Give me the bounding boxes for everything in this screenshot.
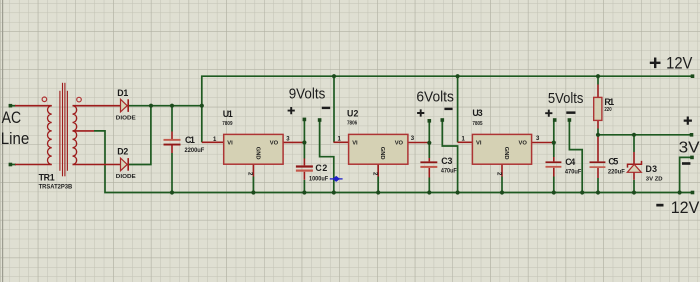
op-amp U1 regulator 7809 xyxy=(202,134,305,176)
diode D2 xyxy=(121,158,129,171)
wire 6V plus terminal down through U2 output node to C3 xyxy=(428,122,430,158)
wire C4 bottom lead xyxy=(553,177,555,193)
plus symbol 9V xyxy=(288,107,295,114)
plus symbol 6V xyxy=(417,109,424,116)
svg-text:U2: U2 xyxy=(347,108,358,118)
svg-text:AC: AC xyxy=(2,108,22,127)
wire 9V plus terminal down through U1 output node to C2 xyxy=(303,120,305,159)
wire 5V plus terminal down through U3 output node to C4 xyxy=(553,122,555,158)
svg-text:DIODE: DIODE xyxy=(116,116,136,122)
capacitor C3 xyxy=(420,158,437,178)
svg-text:U1: U1 xyxy=(223,109,233,119)
minus symbol 5V xyxy=(566,111,575,114)
svg-text:C3: C3 xyxy=(441,156,452,166)
svg-text:GND: GND xyxy=(503,147,509,160)
wire C2 bottom lead xyxy=(303,180,305,193)
wire AC top stub xyxy=(10,105,16,107)
wire rail to R1 top xyxy=(597,76,599,84)
svg-text:VO: VO xyxy=(270,140,279,146)
minus symbol 9V xyxy=(322,107,330,109)
wire U2 ground pin to rail xyxy=(377,177,379,193)
minus symbol of -12V xyxy=(656,204,663,207)
wire U1 ground pin to rail xyxy=(252,177,254,193)
svg-text:7805: 7805 xyxy=(472,121,483,127)
terminal node 9V minus xyxy=(318,118,322,122)
terminal node 9V plus xyxy=(303,118,307,122)
junction dots at regulator outputs xyxy=(302,140,306,144)
svg-text:TR1: TR1 xyxy=(39,173,55,183)
diode D1 xyxy=(121,99,129,112)
svg-text:GND: GND xyxy=(254,147,260,160)
svg-text:VO: VO xyxy=(395,140,404,146)
svg-text:12V: 12V xyxy=(666,54,692,72)
terminal node AC top xyxy=(9,104,13,108)
zener diode D3 xyxy=(627,152,641,180)
svg-text:7806: 7806 xyxy=(347,121,358,127)
svg-text:VI: VI xyxy=(352,140,358,146)
svg-text:D1: D1 xyxy=(117,88,128,98)
plus symbol 5V xyxy=(545,110,552,117)
svg-text:C4: C4 xyxy=(565,157,575,167)
wire D2 cathode up to D1 cathode xyxy=(128,106,151,165)
terminal node 3V minus xyxy=(690,156,694,160)
wire transformer center tap + bottom ground rail xyxy=(94,131,693,193)
transformer TR1 xyxy=(15,83,121,177)
wire R1 bottom to 3V node xyxy=(597,129,599,135)
wire rectifier output node to U1 column xyxy=(128,105,202,107)
wire C1 top lead xyxy=(171,106,173,132)
svg-text:220uF: 220uF xyxy=(608,168,625,175)
wire rail to U3 input xyxy=(457,76,459,142)
wire D3 top lead xyxy=(633,135,635,152)
svg-text:VI: VI xyxy=(227,140,233,146)
wire C3 bottom lead xyxy=(428,178,430,193)
svg-text:D3: D3 xyxy=(646,164,658,174)
op-amp U3 regulator 7805 xyxy=(458,134,554,176)
capacitor C4 xyxy=(546,157,562,177)
svg-text:C1: C1 xyxy=(185,135,195,145)
svg-text:12V: 12V xyxy=(671,199,700,217)
minus symbol 6V xyxy=(444,108,452,110)
svg-text:470uF: 470uF xyxy=(565,168,581,175)
blue marker next to 1000uF xyxy=(330,176,343,182)
wire 9V minus terminal to ground rail xyxy=(320,122,334,193)
terminal node 5V minus xyxy=(568,118,572,122)
wire 3V net horizontal xyxy=(598,134,692,136)
terminal node 3V plus xyxy=(690,133,694,137)
svg-text:TRSAT2P3B: TRSAT2P3B xyxy=(39,184,73,191)
wire 5V minus terminal to ground rail xyxy=(569,122,582,193)
wire D3 bottom lead xyxy=(633,180,635,193)
junction dots on ground rail xyxy=(170,190,174,194)
svg-text:U3: U3 xyxy=(472,108,482,118)
svg-text:GND: GND xyxy=(379,147,385,160)
svg-text:VI: VI xyxy=(476,140,482,146)
wire C1 bottom lead xyxy=(171,153,173,193)
terminal node -12V rail end xyxy=(691,191,695,195)
junction dots on top rail xyxy=(332,74,336,78)
svg-text:1000uF: 1000uF xyxy=(309,176,328,183)
wire C5 bottom lead to ground rail xyxy=(597,178,599,193)
capacitor C2 xyxy=(296,159,313,180)
sheet border left edge xyxy=(2,0,4,282)
junction dot on 3V net at D3 xyxy=(632,133,636,137)
terminal node 6V plus xyxy=(428,119,432,123)
minus symbol 3V xyxy=(682,162,690,165)
svg-text:7809: 7809 xyxy=(222,121,233,127)
svg-text:6Volts: 6Volts xyxy=(416,89,454,105)
terminal node 5V plus xyxy=(553,118,557,122)
svg-text:R1: R1 xyxy=(604,97,614,107)
junction dots on rectifier output xyxy=(149,104,153,108)
svg-text:DIODE: DIODE xyxy=(116,174,136,180)
wire rail to U2 input xyxy=(333,76,335,142)
wire 6V minus terminal to ground rail xyxy=(442,122,457,193)
terminal node 6V minus xyxy=(441,118,445,122)
plus symbol 3V xyxy=(684,117,692,125)
svg-text:5Volts: 5Volts xyxy=(548,91,584,107)
resistor R1 xyxy=(594,85,602,129)
wire top +12V rail from U1 input column to right terminal xyxy=(202,76,693,142)
svg-text:2200uF: 2200uF xyxy=(185,147,205,154)
svg-text:VO: VO xyxy=(519,140,528,146)
wire AC bottom stub xyxy=(10,164,16,166)
svg-text:220: 220 xyxy=(604,107,611,113)
svg-text:470uF: 470uF xyxy=(441,167,457,174)
svg-text:3V: 3V xyxy=(679,140,700,157)
capacitor C5 xyxy=(590,136,606,178)
terminal node AC bottom xyxy=(9,163,13,167)
junction dot on 3V net at R1 xyxy=(596,133,600,137)
terminal node +12V rail end xyxy=(691,74,695,78)
plus symbol of +12V xyxy=(650,58,661,69)
svg-text:Line: Line xyxy=(1,129,30,148)
wire 3V minus terminal to ground rail xyxy=(680,157,692,192)
capacitor C1 xyxy=(164,132,181,154)
svg-text:C5: C5 xyxy=(608,156,618,166)
op-amp U2 regulator 7806 xyxy=(334,134,430,176)
svg-text:9Volts: 9Volts xyxy=(289,87,326,103)
wire U3 ground pin to rail xyxy=(501,177,503,193)
svg-text:D2: D2 xyxy=(117,146,128,156)
svg-text:3V ZD: 3V ZD xyxy=(646,176,663,182)
svg-text:C2: C2 xyxy=(315,163,327,173)
